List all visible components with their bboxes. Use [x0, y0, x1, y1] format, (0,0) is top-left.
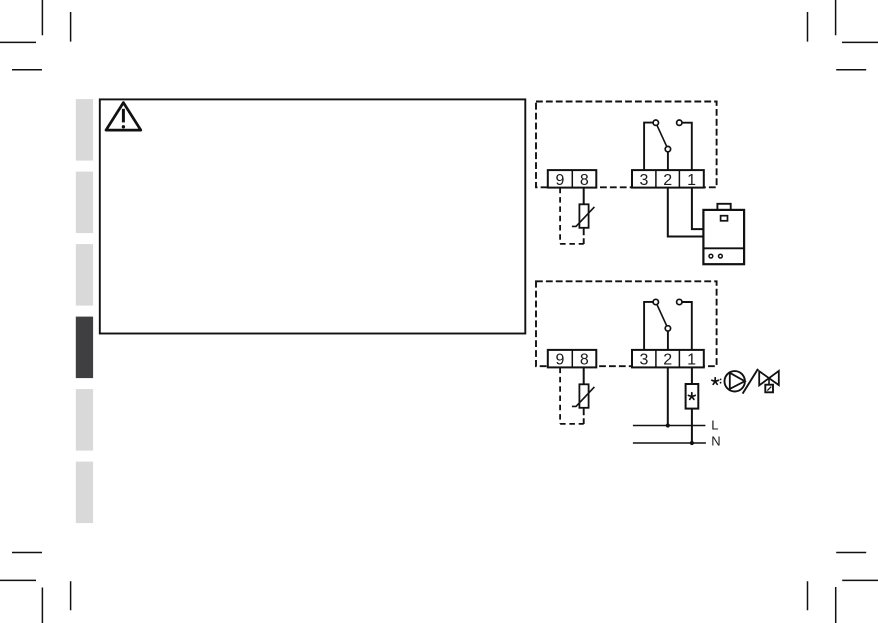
boiler unit	[703, 204, 744, 264]
temperature sensor RF (top, NTC)	[572, 204, 595, 228]
divider between pin 9 and pin 8 (top)	[571, 170, 573, 188]
svg-text:N: N	[711, 433, 720, 448]
svg-text:3: 3	[640, 172, 649, 189]
contact C (top)	[677, 120, 682, 125]
wire: terminal 8 to sensor (top)	[583, 188, 585, 205]
section tab 6	[76, 462, 93, 523]
load box body	[686, 384, 699, 409]
section tab 4 (active, dark)	[76, 317, 93, 379]
warning note box	[100, 99, 526, 333]
contact B (top)	[665, 146, 670, 151]
wire: contact B down to terminal 2 (top)	[667, 151, 669, 171]
svg-text:8: 8	[580, 352, 589, 369]
switch arm (relay contact, top)	[656, 123, 668, 149]
junction: wire2 on L line	[666, 423, 670, 427]
boiler body	[703, 210, 744, 264]
load box * (pump/valve)	[686, 384, 699, 409]
controller outline (dashed box, bottom diagram)	[536, 281, 717, 366]
svg-text:1: 1	[687, 352, 696, 369]
boiler knob 1	[709, 254, 713, 258]
wire: terminal 8 to sensor (bottom)	[583, 368, 585, 385]
wire: terminal 1 up and left to contact C (bottom)	[682, 302, 692, 351]
divider between pin 9 and pin 8 (bottom)	[571, 350, 573, 368]
wire: terminal 2 to boiler (top)	[668, 188, 704, 237]
terminal block 3/2/1 (top)	[632, 170, 704, 189]
warning triangle icon	[106, 103, 141, 131]
section tab 5	[76, 389, 93, 451]
legend: slash separator	[743, 369, 758, 394]
wire: dashed from terminal 9 down (top sensor loop)	[559, 188, 561, 244]
wire: sensor down to dashed loop (top)	[583, 228, 585, 244]
svg-text:9: 9	[556, 172, 565, 189]
dividers between pins 3/2 and 2/1 (top)	[656, 170, 680, 188]
svg-text:1: 1	[687, 172, 696, 189]
section tab 2	[76, 172, 93, 234]
contact A (top)	[653, 120, 658, 125]
section tab 1	[76, 99, 93, 161]
wire: load box down to N line	[691, 409, 693, 443]
boiler display	[721, 216, 728, 221]
svg-text:L: L	[711, 417, 718, 432]
controller outline (dashed box, top diagram)	[536, 102, 717, 188]
wire: terminal 1 down to load box	[691, 368, 693, 384]
boiler knob 2	[719, 254, 723, 258]
wire: dashed from terminal 9 down (bottom sensor loop)	[559, 368, 561, 424]
legend: motorised valve symbol	[759, 371, 779, 392]
sensor diagonal stroke (bottom)	[572, 387, 595, 407]
sensor body (bottom)	[579, 384, 588, 408]
section tab 3	[76, 244, 93, 306]
wire: terminal 3 to contact A (top)	[644, 123, 653, 171]
wire: terminal 1 to boiler (top)	[692, 188, 704, 229]
terminal block 9/8 (top)	[548, 170, 597, 189]
wire: terminal 3 to contact A (bottom)	[644, 302, 653, 351]
terminal block 9/8 (bottom)	[548, 350, 597, 369]
sensor body (top)	[579, 204, 588, 228]
L line	[633, 425, 706, 427]
terminal block 3/2/1 (bottom)	[632, 350, 704, 369]
svg-text:3: 3	[640, 352, 649, 369]
legend: colon	[720, 379, 722, 381]
load box value label *	[688, 393, 695, 400]
N line	[633, 442, 706, 444]
legend: * symbol	[712, 378, 719, 385]
wire: terminal 1 up and left to contact C (top)	[682, 123, 692, 171]
wire: terminal 2 down to L line	[667, 368, 669, 426]
dividers between pins 3/2 and 2/1 (bottom)	[656, 350, 680, 368]
contact C (bottom)	[677, 299, 682, 304]
wire: dashed bottom of sensor loop (bottom)	[560, 423, 584, 425]
legend: pump symbol	[725, 371, 745, 391]
contact B (bottom)	[665, 326, 670, 331]
wire: dashed bottom of sensor loop (top)	[560, 243, 584, 245]
svg-text:8: 8	[580, 172, 589, 189]
junction: wire1 on N line	[690, 441, 694, 445]
svg-text:2: 2	[663, 352, 672, 369]
wire: sensor down to dashed loop (bottom)	[583, 408, 585, 424]
contact A (bottom)	[653, 299, 658, 304]
svg-text:9: 9	[556, 352, 565, 369]
temperature sensor RF (bottom, NTC)	[572, 384, 595, 408]
boiler flue cap	[717, 204, 730, 210]
boiler panel divider	[703, 247, 744, 249]
svg-text:2: 2	[663, 172, 672, 189]
wire: contact B down to terminal 2 (bottom)	[667, 330, 669, 351]
sensor diagonal stroke (top)	[572, 207, 595, 227]
switch arm (relay contact, bottom)	[656, 302, 668, 328]
